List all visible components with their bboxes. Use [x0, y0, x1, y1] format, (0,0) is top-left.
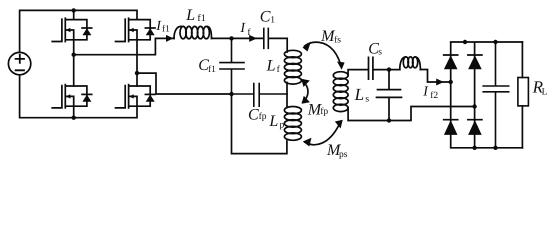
svg-text:fp: fp: [259, 112, 267, 122]
svg-text:s: s: [378, 47, 382, 57]
svg-text:f1: f1: [208, 65, 216, 75]
svg-text:L: L: [268, 113, 278, 130]
svg-text:f2: f2: [430, 91, 438, 101]
svg-text:s: s: [365, 94, 369, 104]
svg-text:1: 1: [270, 15, 275, 25]
svg-text:p: p: [280, 120, 285, 130]
svg-text:f1: f1: [197, 13, 205, 24]
svg-text:f1: f1: [162, 24, 170, 34]
svg-text:L: L: [266, 57, 276, 74]
svg-text:fs: fs: [334, 36, 341, 46]
svg-text:fp: fp: [320, 107, 328, 117]
svg-text:C: C: [248, 107, 259, 124]
svg-text:L: L: [542, 88, 548, 98]
svg-text:L: L: [354, 85, 364, 104]
svg-text:ps: ps: [339, 150, 348, 160]
svg-text:C: C: [260, 9, 271, 26]
svg-text:L: L: [185, 7, 195, 24]
